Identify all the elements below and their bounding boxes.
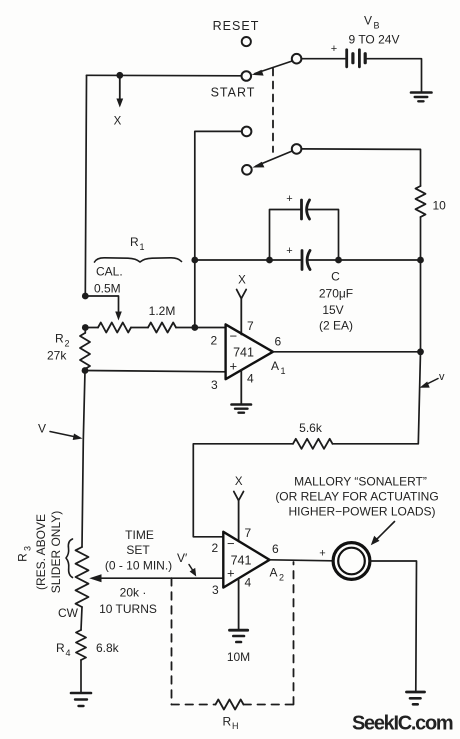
dashed wire up to A2 output [293, 562, 295, 705]
resistor R4 6.8k [76, 630, 86, 660]
label (OR RELAY FOR ACTUATING [275, 490, 438, 504]
junction node-line right rail [417, 257, 424, 264]
potentiometer R3 [76, 547, 89, 607]
svg-text:(2 EA): (2 EA) [319, 319, 353, 333]
wire S1b upper contact to node rail [195, 131, 242, 327]
svg-text:R: R [16, 553, 30, 562]
junction A1 output rail [417, 348, 424, 355]
ground (A1 pin4) [232, 405, 252, 413]
ground (battery) [411, 93, 432, 102]
svg-text:(0 - 10 MIN.): (0 - 10 MIN.) [105, 559, 172, 573]
svg-text:1: 1 [281, 366, 286, 376]
svg-text:2: 2 [279, 573, 284, 583]
wire resistor 10 to node [420, 217, 422, 260]
label 6.8k [96, 641, 120, 655]
label TIME [125, 528, 154, 542]
svg-text:MALLORY “SONALERT”: MALLORY “SONALERT” [294, 475, 427, 489]
svg-text:1.2M: 1.2M [149, 304, 176, 318]
svg-text:+: + [230, 359, 238, 374]
wire pot to 1.2M [131, 327, 148, 329]
label (RES. ABOVE (rotated) [34, 514, 48, 590]
label VB [364, 14, 380, 31]
junction R2 top [82, 324, 89, 331]
svg-text:10: 10 [433, 199, 447, 213]
label R3 (rotated) [16, 546, 33, 562]
svg-text:X: X [238, 275, 246, 287]
label V' with arrow [177, 551, 196, 577]
svg-text:741: 741 [231, 554, 252, 568]
dashed wire RH to A2 output [244, 704, 294, 706]
label A1 pin3 [211, 378, 218, 392]
node X above A2 [234, 476, 244, 501]
ground (sonalert) [407, 692, 425, 704]
label A2 pin4 [245, 576, 252, 590]
svg-text:27k: 27k [47, 349, 67, 363]
label A1 [271, 359, 286, 376]
label R4 [56, 641, 71, 658]
svg-text:+: + [227, 566, 235, 581]
junction top-left [116, 72, 123, 79]
label A1 pin2 [211, 334, 218, 348]
label 1.2M [149, 304, 176, 318]
wire node line (left part) [195, 259, 302, 261]
svg-text:X: X [114, 116, 122, 128]
svg-text:20k ·: 20k · [120, 586, 147, 600]
svg-text:−: − [230, 329, 238, 344]
svg-text:SLIDER ONLY): SLIDER ONLY) [49, 511, 63, 593]
svg-text:(RES. ABOVE: (RES. ABOVE [34, 514, 48, 590]
dashed wire bottom left to RH [172, 704, 216, 706]
svg-text:6.8k: 6.8k [96, 641, 120, 655]
wire A1 output [273, 351, 421, 353]
svg-text:v: v [439, 371, 445, 383]
junction node-line left [191, 257, 198, 264]
svg-text:START: START [211, 86, 256, 100]
svg-text:R: R [55, 332, 64, 346]
wire 0.5M wiper branch [85, 296, 122, 321]
svg-text:3: 3 [211, 378, 218, 392]
junction R2 bottom [82, 367, 89, 374]
op-amp A2 [223, 532, 269, 588]
svg-text:A: A [271, 359, 279, 373]
switch S1b pole [292, 144, 302, 154]
svg-text:R: R [130, 235, 139, 249]
label R1 [130, 235, 145, 252]
switch S1b upper contact [242, 127, 252, 137]
svg-text:SeekIC.com: SeekIC.com [352, 713, 453, 735]
svg-text:5.6k: 5.6k [299, 421, 323, 435]
svg-text:+: + [286, 193, 292, 205]
label SET [126, 543, 150, 557]
svg-text:2: 2 [212, 541, 219, 555]
switch S1a pole [292, 54, 302, 64]
capacitor C (lower of pair) [286, 245, 310, 270]
switch linkage (dashed) [272, 69, 274, 153]
wire R2 stub top [84, 328, 86, 334]
svg-text:1: 1 [140, 242, 145, 252]
label SLIDER ONLY) (rotated) [49, 511, 63, 593]
label A1 pin7 [247, 319, 254, 333]
label 27k [47, 349, 67, 363]
svg-text:V′: V′ [177, 551, 188, 565]
label A1 pin6 [275, 335, 282, 349]
wire right rail mid [420, 260, 422, 352]
svg-text:B: B [374, 21, 380, 31]
svg-text:2: 2 [211, 334, 218, 348]
ground (R4) [71, 693, 91, 706]
wire A1 pin4 [240, 370, 242, 404]
wire A2 pin4 [238, 579, 240, 630]
wire 1.2M to pin2 node [176, 327, 195, 329]
resistor 10 [416, 186, 426, 217]
svg-text:0.5M: 0.5M [94, 282, 121, 296]
node X (top-left) [114, 78, 124, 128]
wire R4 to ground [80, 660, 82, 692]
wire A2 pin7 [238, 501, 240, 542]
svg-text:X: X [235, 476, 243, 488]
wire A1 pin3 [85, 371, 226, 372]
brace R1 [95, 258, 182, 262]
svg-text:+: + [286, 245, 292, 257]
svg-text:(OR RELAY FOR ACTUATING: (OR RELAY FOR ACTUATING [275, 490, 438, 504]
svg-text:4: 4 [66, 648, 71, 658]
capacitor C (upper of pair) [286, 193, 309, 219]
svg-text:4: 4 [245, 576, 252, 590]
svg-text:R: R [56, 641, 65, 655]
wire S1b pole to right rail [301, 149, 420, 186]
label CAL. [96, 265, 123, 279]
svg-text:9 TO 24V: 9 TO 24V [349, 33, 400, 47]
junction pin2 node [191, 324, 198, 331]
label HIGHER-POWER LOADS) [288, 505, 435, 519]
svg-text:−: − [227, 536, 235, 551]
svg-text:6: 6 [272, 542, 279, 556]
svg-text:270μF: 270μF [319, 287, 353, 301]
switch S1a START contact [242, 71, 252, 81]
svg-text:+: + [319, 548, 325, 560]
label MALLORY "SONALERT" [294, 475, 427, 489]
svg-text:CW: CW [58, 606, 79, 620]
label (0 - 10 MIN.) [105, 559, 172, 573]
label V (left) with arrow [38, 422, 83, 441]
label A2 pin6 [272, 542, 279, 556]
svg-text:TIME: TIME [125, 528, 154, 542]
svg-text:C: C [331, 270, 340, 284]
svg-text:10M: 10M [227, 650, 250, 664]
wire left rail mid [82, 371, 85, 548]
svg-text:7: 7 [247, 319, 254, 333]
label 10 [433, 199, 447, 213]
label 10 TURNS [99, 602, 157, 616]
label C [331, 270, 340, 284]
label 0.5M [94, 282, 121, 296]
resistor 1.2M (part of R1) [148, 323, 176, 333]
battery VB [301, 43, 365, 67]
brace R3 upper section [66, 539, 73, 578]
label 270uF [319, 287, 353, 301]
dashed wire V' node down [171, 578, 173, 704]
junction cap loop left [266, 257, 273, 264]
wire 5.6k to A2 pin2 [193, 444, 293, 537]
ground (A2 pin4) [230, 630, 248, 642]
label v (right) with arrow [420, 371, 446, 388]
svg-text:V: V [38, 422, 46, 436]
wire battery to ground [367, 59, 421, 92]
watermark SeekIC.com [352, 713, 453, 735]
label CW [58, 606, 79, 620]
switch S1b lower contact [242, 165, 252, 175]
svg-text:+: + [331, 43, 337, 55]
wire pot left [85, 327, 98, 329]
node X above A1 [237, 275, 247, 299]
svg-text:SET: SET [126, 543, 150, 557]
label 10M [227, 650, 250, 664]
svg-text:6: 6 [275, 335, 282, 349]
junction cap loop right [335, 257, 342, 264]
svg-text:741: 741 [233, 346, 254, 360]
label START [211, 86, 256, 100]
svg-text:H: H [232, 721, 239, 731]
resistor RH [216, 700, 244, 710]
label A2 pin2 [212, 541, 219, 555]
wire A1 pin7 [240, 299, 242, 335]
label RH [223, 715, 239, 732]
svg-text:A: A [270, 566, 278, 580]
label 20k [120, 586, 147, 600]
switch S1a arm [252, 61, 293, 76]
label A2 pin7 [245, 526, 252, 540]
label A2 [270, 566, 285, 583]
label RESET [213, 19, 260, 33]
svg-text:3: 3 [212, 583, 219, 597]
svg-text:15V: 15V [322, 303, 343, 317]
wire A1 pin2 [195, 327, 226, 329]
switch S1a RESET contact [242, 37, 251, 46]
wire R3 to R4 [81, 607, 82, 630]
svg-text:2: 2 [65, 339, 70, 349]
sonalert DS1 [333, 543, 370, 580]
op-amp A1 [226, 324, 273, 379]
wire right rail lower [333, 352, 421, 444]
wire capacitor loop (upper) [270, 210, 339, 261]
wire left rail upper [85, 75, 86, 296]
label 15V [322, 303, 343, 317]
wire node line (right part) [309, 259, 421, 261]
svg-text:3: 3 [23, 546, 33, 551]
potentiometer 0.5M (part of R1) [98, 323, 131, 333]
svg-text:10 TURNS: 10 TURNS [99, 602, 157, 616]
junction 0.5M branch [82, 293, 89, 300]
label (2 EA) [319, 319, 353, 333]
svg-text:7: 7 [245, 526, 252, 540]
label A2 pin3 [212, 583, 219, 597]
svg-text:RESET: RESET [213, 19, 260, 33]
wire top rail to START [87, 74, 242, 77]
svg-text:HIGHER−POWER LOADS): HIGHER−POWER LOADS) [288, 505, 435, 519]
wire sonalert to ground [370, 561, 417, 691]
arrow to sonalert [371, 522, 395, 546]
resistor 5.6k [293, 439, 333, 449]
svg-text:V: V [364, 14, 372, 28]
label 5.6k [299, 421, 323, 435]
wiper wire R3 to A2 pin3 [89, 574, 223, 582]
wire A2 output to sonalert [270, 548, 333, 561]
switch S1b arm [252, 151, 292, 168]
resistor R2 27k [80, 333, 90, 369]
label R2 [55, 332, 70, 349]
svg-text:R: R [223, 715, 232, 729]
label 9 TO 24V [349, 33, 400, 47]
label A1 pin4 [247, 372, 254, 386]
svg-text:4: 4 [247, 372, 254, 386]
svg-text:CAL.: CAL. [96, 265, 123, 279]
